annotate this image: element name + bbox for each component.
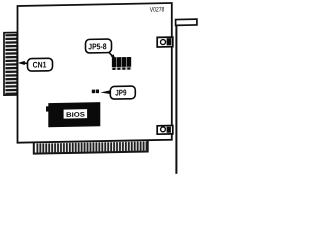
label CN1 (18, 58, 53, 71)
mounting tab bottom (157, 125, 173, 134)
card edge connector fingers (36, 141, 147, 153)
BIOS ROM chip (46, 102, 100, 127)
svg-text:V0278: V0278 (150, 6, 165, 13)
label JP5-8 (86, 39, 116, 59)
jumper block JP5-8 (112, 57, 132, 70)
bracket (175, 20, 177, 174)
svg-text:JP5-8: JP5-8 (88, 41, 107, 51)
card edge connector tongue (34, 140, 148, 153)
mounting tab top (157, 37, 173, 47)
svg-text:CN1: CN1 (33, 59, 47, 69)
svg-text:JP9: JP9 (115, 87, 126, 97)
label JP9 (100, 86, 135, 99)
svg-text:BIOS: BIOS (66, 112, 86, 119)
connector CN1 (4, 32, 17, 95)
board outline (18, 3, 172, 143)
bracket top flange (176, 19, 197, 25)
jumper JP9 (92, 89, 99, 93)
